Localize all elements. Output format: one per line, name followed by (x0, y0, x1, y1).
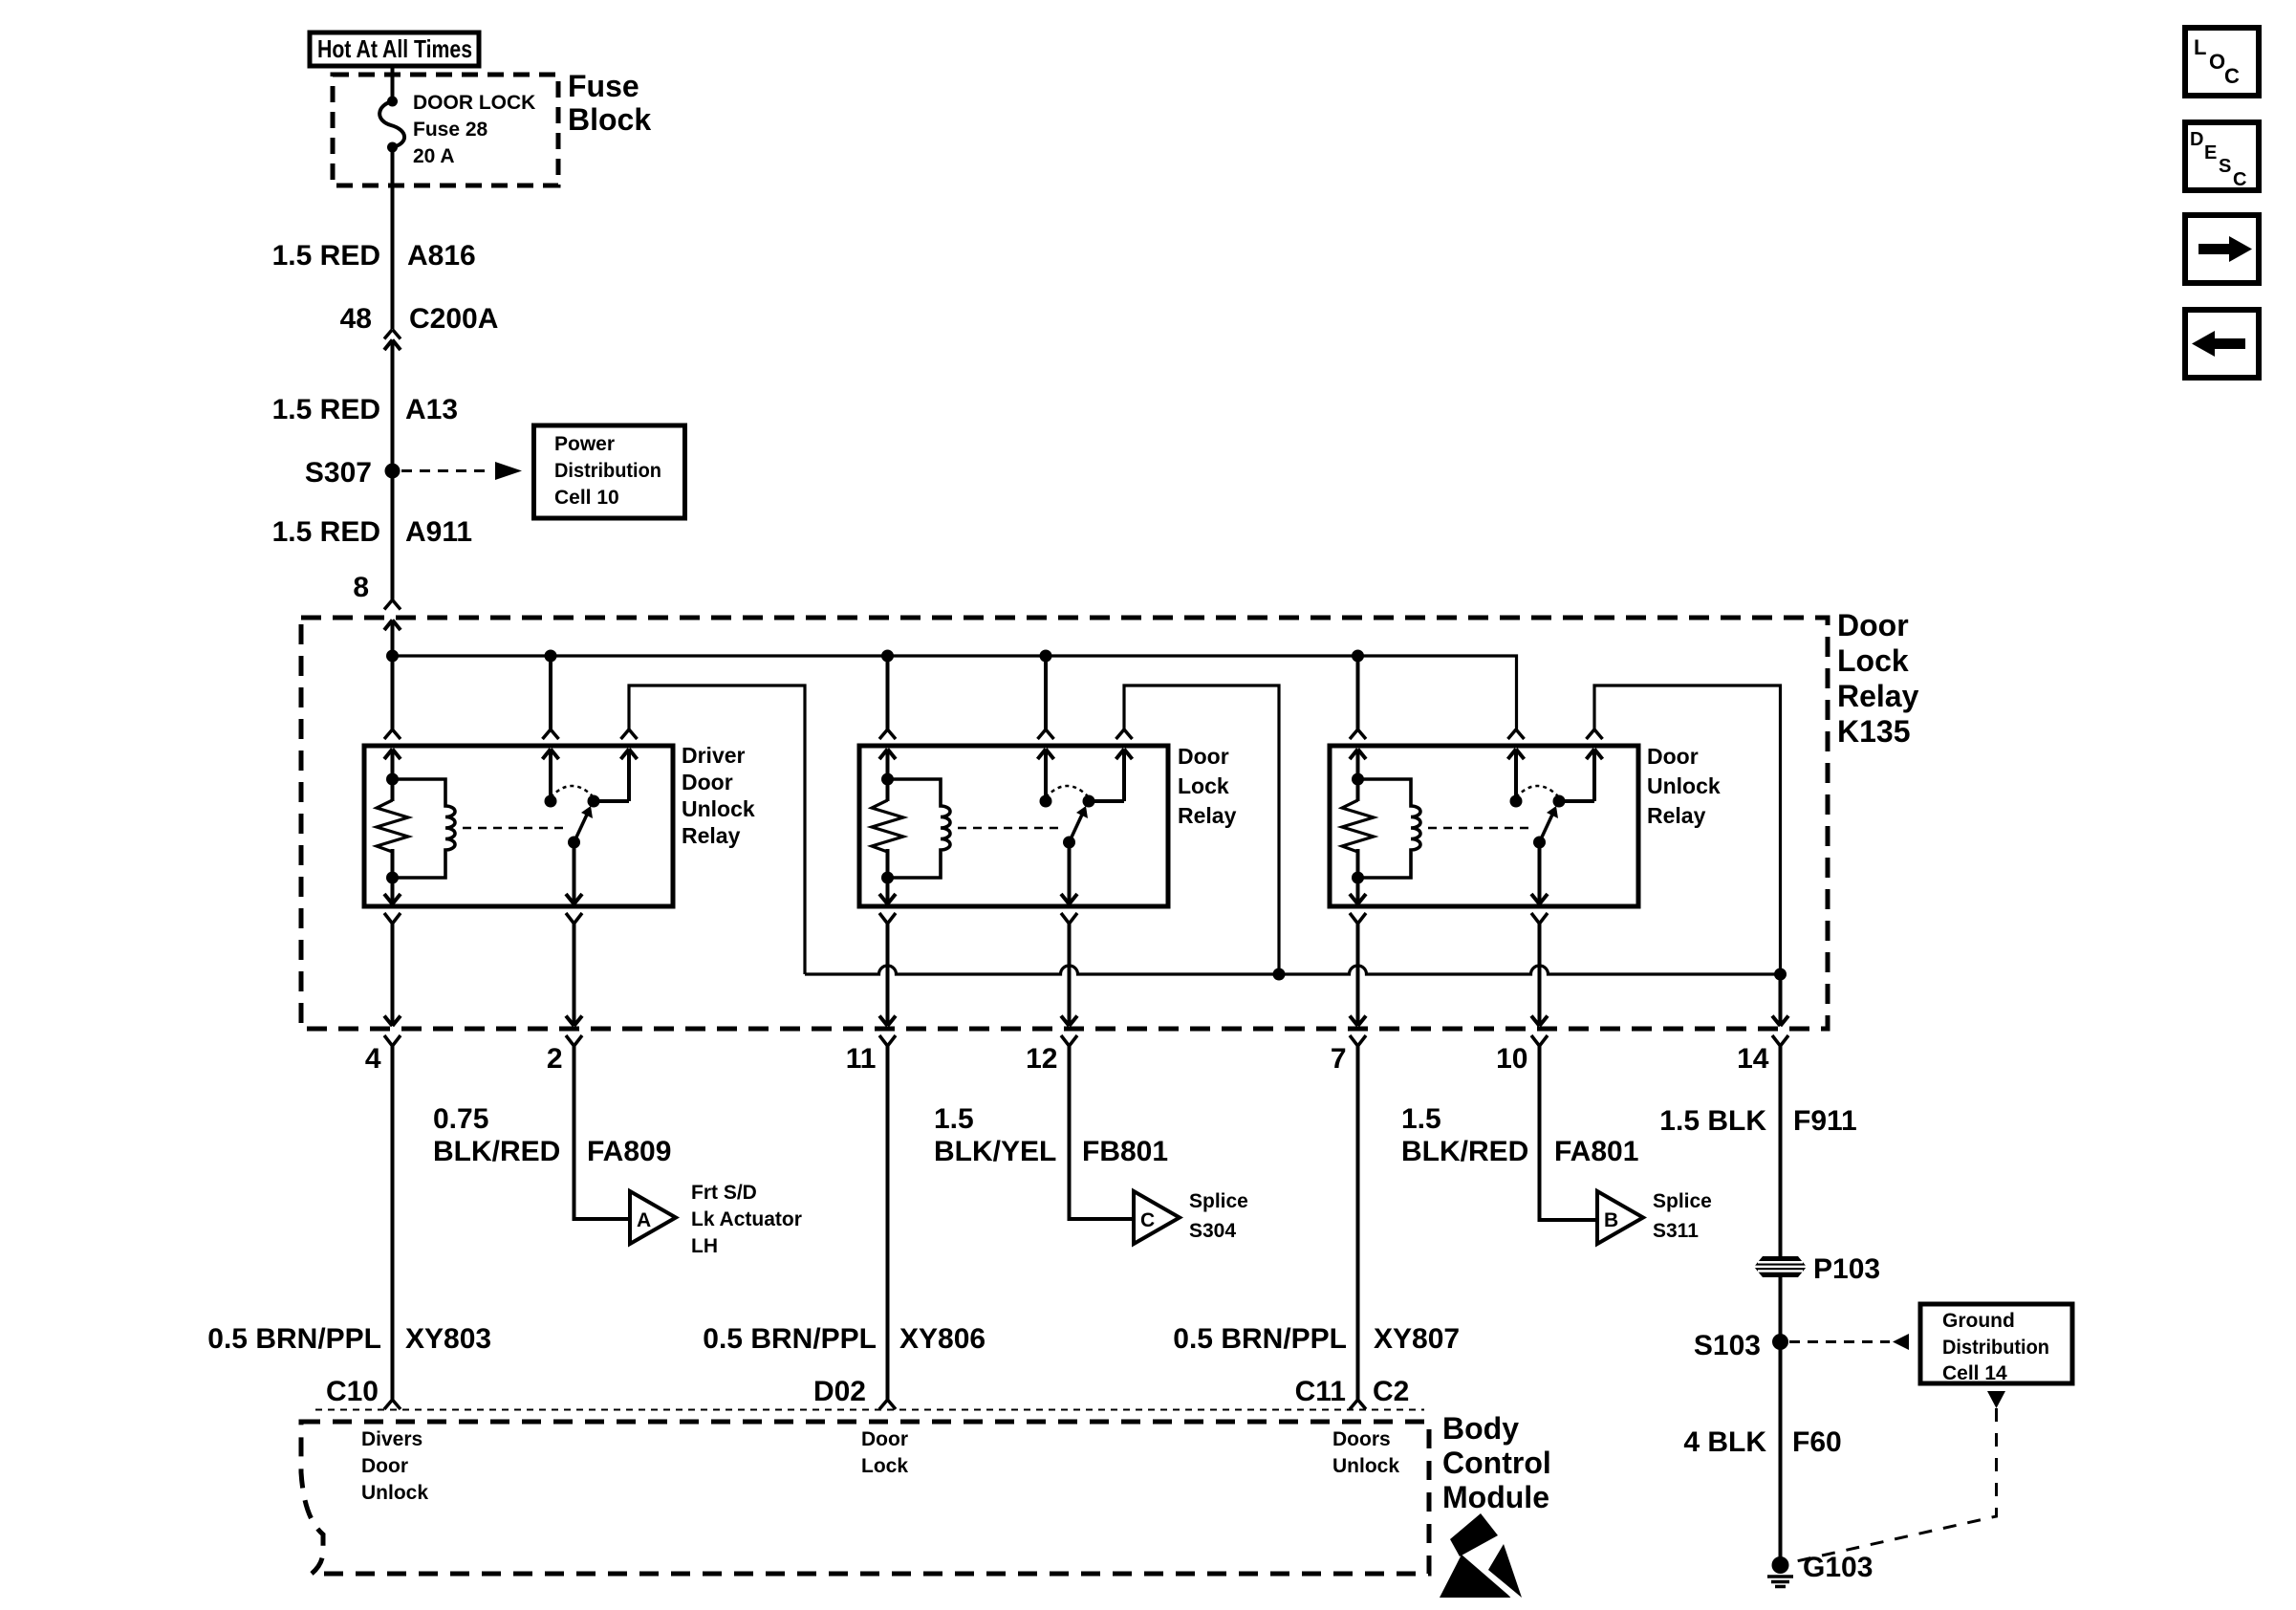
grommet P103 (1754, 1256, 1807, 1277)
svg-text:DOOR LOCK: DOOR LOCK (413, 92, 535, 114)
svg-text:Cell 14: Cell 14 (1942, 1362, 2007, 1384)
svg-text:FA801: FA801 (1554, 1136, 1638, 1167)
svg-text:S304: S304 (1189, 1220, 1236, 1242)
svg-text:0.75: 0.75 (433, 1103, 488, 1135)
svg-text:P103: P103 (1813, 1253, 1880, 1285)
svg-text:Door: Door (1178, 744, 1229, 769)
svg-text:BLK/YEL: BLK/YEL (934, 1136, 1056, 1167)
wire relay pin drop (1068, 924, 1072, 1026)
svg-text:C2: C2 (1373, 1376, 1409, 1407)
svg-text:E: E (2204, 142, 2217, 163)
wire relay pin drop (1538, 924, 1542, 1026)
relay Driver Door Unlock Relay (364, 729, 673, 924)
power bus inside K135 (393, 656, 1517, 729)
svg-text:C: C (2224, 64, 2240, 88)
svg-text:1.5 RED: 1.5 RED (272, 516, 380, 548)
wire pin7 to BCM C11/C2 (1356, 1046, 1360, 1400)
splice C triangle (1134, 1191, 1180, 1244)
svg-text:LH: LH (691, 1235, 718, 1257)
dashed arrow to Power Distribution (401, 469, 489, 472)
svg-text:Module: Module (1442, 1480, 1549, 1514)
Door Lock Relay K135 dashed box (301, 618, 1828, 1029)
wire bus to relay3 coil (1356, 656, 1360, 729)
svg-text:10: 10 (1496, 1043, 1527, 1075)
connector at K135 bottom edge (1061, 1016, 1070, 1027)
svg-text:1.5 RED: 1.5 RED (272, 240, 380, 272)
svg-text:4: 4 (365, 1043, 381, 1075)
svg-text:1.5 BLK: 1.5 BLK (1659, 1105, 1766, 1137)
svg-text:48: 48 (340, 303, 372, 335)
svg-text:G103: G103 (1803, 1552, 1873, 1583)
svg-text:Block: Block (568, 102, 651, 137)
svg-text:Lock: Lock (1837, 643, 1909, 678)
svg-text:0.5 BRN/PPL: 0.5 BRN/PPL (703, 1323, 877, 1355)
svg-text:Lock: Lock (861, 1455, 908, 1477)
svg-text:Relay: Relay (1837, 679, 1919, 713)
wire bus to relay1 NC contact (549, 656, 552, 729)
svg-text:Fuse 28: Fuse 28 (413, 119, 488, 141)
svg-text:D02: D02 (813, 1376, 866, 1407)
wire pin12 to splice C (1070, 1046, 1135, 1219)
svg-text:7: 7 (1331, 1043, 1347, 1075)
svg-text:Cell 10: Cell 10 (554, 487, 619, 509)
svg-text:XY807: XY807 (1374, 1323, 1460, 1355)
svg-text:Unlock: Unlock (682, 796, 755, 821)
svg-text:4 BLK: 4 BLK (1683, 1426, 1766, 1458)
DESC box (2185, 122, 2259, 190)
connector C200A pin 48 (384, 330, 393, 339)
svg-text:Distribution: Distribution (1942, 1337, 2049, 1359)
svg-text:C: C (2233, 169, 2246, 190)
wire relay1 NO contact to crossover (629, 685, 805, 974)
connector at K135 bottom edge (1350, 1016, 1358, 1027)
svg-text:Fuse: Fuse (568, 69, 639, 103)
svg-text:L: L (2194, 35, 2206, 59)
svg-text:Lk Actuator: Lk Actuator (691, 1208, 802, 1230)
svg-text:1.5 RED: 1.5 RED (272, 394, 380, 425)
Body Control Module dashed box (315, 1409, 1424, 1411)
svg-text:S311: S311 (1653, 1220, 1699, 1242)
junction crossover / pin14 (1774, 968, 1787, 981)
svg-text:C: C (1140, 1209, 1155, 1231)
svg-text:O: O (2209, 50, 2225, 74)
svg-text:2: 2 (547, 1043, 563, 1075)
svg-text:Door: Door (361, 1455, 408, 1477)
wire 1.5 RED A816 (391, 147, 395, 329)
left arrow box (2185, 310, 2259, 378)
svg-text:F60: F60 (1792, 1426, 1842, 1458)
svg-text:A816: A816 (407, 240, 476, 272)
wire bus to relay2 coil (886, 656, 890, 729)
svg-text:Distribution: Distribution (554, 460, 661, 482)
svg-text:F911: F911 (1793, 1105, 1857, 1137)
Ground Distribution Cell 14 box (1920, 1304, 2072, 1383)
svg-text:K135: K135 (1837, 714, 1911, 749)
wire relay pin drop (573, 924, 576, 1026)
svg-text:0.5 BRN/PPL: 0.5 BRN/PPL (207, 1323, 381, 1355)
svg-text:Door: Door (1837, 608, 1909, 642)
wire pin10 to splice B (1540, 1046, 1598, 1220)
svg-text:S103: S103 (1694, 1330, 1761, 1361)
svg-text:XY803: XY803 (405, 1323, 491, 1355)
svg-text:Hot At All Times: Hot At All Times (317, 34, 472, 63)
svg-text:FB801: FB801 (1082, 1136, 1168, 1167)
wire relay2 NO contact to crossover (1124, 685, 1279, 974)
svg-text:Door: Door (861, 1428, 908, 1450)
svg-text:A13: A13 (405, 394, 458, 425)
junction relay2 NO / crossover (1273, 968, 1286, 981)
svg-text:Relay: Relay (1647, 803, 1706, 828)
connector at K135 bottom edge (384, 1016, 393, 1027)
ESD sensitivity symbol (1450, 1513, 1498, 1556)
connector at K135 bottom edge (1772, 1016, 1781, 1027)
wire bus to relay2 NC contact (1044, 656, 1048, 729)
svg-text:Relay: Relay (1178, 803, 1237, 828)
connector at K135 bottom edge (1531, 1016, 1540, 1027)
svg-text:BLK/RED: BLK/RED (1401, 1136, 1528, 1167)
wire relay pin drop (391, 924, 395, 1026)
svg-text:Ground: Ground (1942, 1310, 2015, 1332)
svg-text:S307: S307 (305, 457, 372, 489)
wire to S103 (1779, 1277, 1783, 1565)
svg-text:12: 12 (1026, 1043, 1057, 1075)
svg-text:C200A: C200A (409, 303, 498, 335)
ground G103 (1772, 1556, 1789, 1574)
wire 1.5 RED A13 (391, 342, 395, 600)
svg-text:XY806: XY806 (899, 1323, 986, 1355)
splice S307 (385, 464, 401, 479)
svg-text:8: 8 (353, 572, 369, 603)
Hot At All Times box (310, 33, 479, 66)
bus junction dots (386, 650, 399, 663)
Power Distribution Cell 10 box (534, 425, 685, 518)
svg-text:C10: C10 (326, 1376, 379, 1407)
svg-text:Lock: Lock (1178, 773, 1229, 798)
svg-text:14: 14 (1737, 1043, 1769, 1075)
svg-text:1.5: 1.5 (1401, 1103, 1441, 1135)
svg-text:Relay: Relay (682, 823, 741, 848)
connector at K135 bottom edge (566, 1016, 574, 1027)
svg-text:S: S (2219, 156, 2231, 177)
right arrow box (2185, 215, 2259, 283)
svg-text:Door: Door (682, 770, 733, 794)
wire pin14 drop (1779, 974, 1783, 1026)
svg-text:Driver: Driver (682, 743, 746, 768)
svg-text:Power: Power (554, 433, 615, 455)
splice B triangle (1597, 1191, 1643, 1244)
svg-text:11: 11 (846, 1043, 877, 1075)
svg-text:A911: A911 (405, 516, 472, 548)
svg-text:1.5: 1.5 (934, 1103, 974, 1135)
relay Door Lock Relay (859, 729, 1168, 924)
fuse block (dashed box) (333, 75, 558, 185)
relay Door Unlock Relay (1330, 729, 1638, 924)
svg-text:Body: Body (1442, 1411, 1519, 1446)
wire pin11 to BCM D02 (886, 1046, 890, 1400)
wire relay pin drop (1356, 924, 1360, 1026)
svg-text:20 A: 20 A (413, 145, 455, 167)
svg-text:BLK/RED: BLK/RED (433, 1136, 560, 1167)
svg-text:A: A (637, 1209, 651, 1231)
svg-text:C11: C11 (1295, 1376, 1346, 1407)
wire bus to relay1 coil (391, 656, 395, 729)
svg-text:Unlock: Unlock (361, 1482, 428, 1504)
svg-text:FA809: FA809 (587, 1136, 671, 1167)
LOC box (2185, 28, 2259, 96)
wire pin2 to splice A (574, 1046, 631, 1219)
wire relay pin drop (886, 924, 890, 1026)
svg-text:Unlock: Unlock (1647, 773, 1721, 798)
connector at K135 bottom edge (879, 1016, 888, 1027)
fuse Fuse 28 20A (387, 97, 398, 107)
crossover wire with hops (805, 966, 1781, 974)
dashed ground reference path (1987, 1391, 2005, 1408)
dashed arrow to Ground Distribution (1789, 1340, 1890, 1343)
svg-text:Door: Door (1647, 744, 1699, 769)
wire from Hot box to fuse (391, 66, 395, 101)
svg-text:Splice: Splice (1653, 1190, 1712, 1212)
svg-text:Frt S/D: Frt S/D (691, 1182, 757, 1204)
svg-text:B: B (1604, 1209, 1618, 1231)
splice A triangle (630, 1191, 676, 1244)
svg-text:Splice: Splice (1189, 1190, 1248, 1212)
wire 1.5 BLK F911 down to P103 (1779, 1046, 1783, 1257)
svg-text:D: D (2190, 129, 2203, 150)
wire pin4 to BCM C10 (391, 1046, 395, 1400)
wire relay3 NO contact to crossover (1594, 685, 1781, 974)
svg-text:Doors: Doors (1332, 1428, 1391, 1450)
svg-text:Divers: Divers (361, 1428, 422, 1450)
svg-text:Unlock: Unlock (1332, 1455, 1399, 1477)
svg-text:Control: Control (1442, 1446, 1551, 1480)
splice S103 (1772, 1334, 1788, 1350)
svg-text:0.5 BRN/PPL: 0.5 BRN/PPL (1173, 1323, 1347, 1355)
